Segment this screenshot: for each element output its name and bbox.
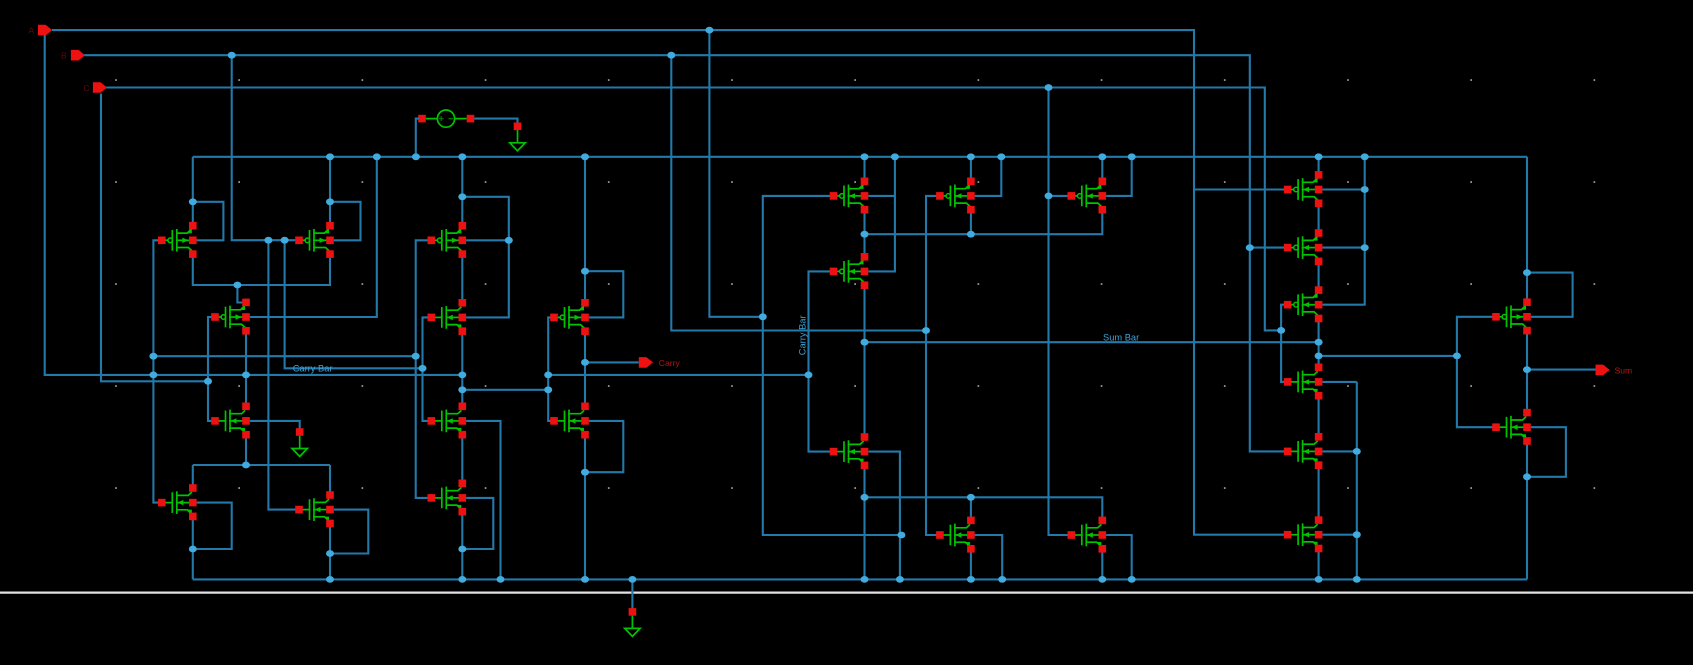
wire wire M25 bulk stub [1322,534,1356,536]
transistor M23 (NMOS) [1284,364,1323,400]
junction gnd7 [896,576,904,583]
wire wire M13 source -> M16 drain [863,211,865,257]
transistor M9 (NMOS) [428,403,467,439]
wire wire VDD rail corner -> M26 drain [1526,157,1528,302]
wire wire M11 bulk loop [585,271,623,317]
transistor M13 (PMOS) [830,178,869,214]
port input B [71,50,85,61]
junction a mid [759,313,767,320]
junction gnd3 [497,576,505,583]
wire wire M17 bulk to GND rail [869,452,900,580]
transistor M27 (NMOS) [1492,409,1531,445]
wire wire VDD -> M14 drain [970,157,972,182]
wire net M11/M12 gates column [548,317,554,421]
wire wire M19 bulk to GND rail [1106,535,1132,579]
transistor M19 (NMOS) [1068,517,1107,553]
wire wire M8 source -> M9 drain [461,331,463,406]
wire wire row y465 [193,464,330,466]
svg-text:C: C [84,83,90,93]
junction vdd8 [967,153,975,160]
wire wire M20 bulk stub [1322,188,1364,190]
wire net C -> M15 gate stub [1049,195,1072,197]
junction m12 loop [581,469,589,476]
transistor M6 (NMOS) [295,491,334,527]
junction gnd13 [1353,576,1361,583]
wire net A H1 row [153,355,415,357]
wire wire M3 source -> M4 drain [245,331,247,407]
junction h3 d2 [242,372,250,379]
wire wire GND bulk column M23-M25 [1356,382,1358,580]
transistor M14 (PMOS) [936,178,975,214]
wire VDD rail [193,156,1527,158]
junction C tap [1045,84,1053,91]
wire wire row y497 -> M19 drain [865,497,1103,520]
wire wire carry-node row y390 [462,389,548,391]
wire wire M26 bulk loop [1527,273,1573,317]
junction bulk r4 [1353,531,1361,538]
wire wire M7 bulk stub [466,239,509,241]
junction B tap2 [667,52,675,59]
junction sumbar l [861,339,869,346]
junction y234 m [967,231,975,238]
junction bulk r3 [1353,448,1361,455]
svg-text:A: A [29,26,35,36]
wire net CarryBar row to middle [548,374,808,376]
junction h3 d3 [458,372,466,379]
wire net C M3/M4 gates [208,317,215,421]
transistor M25 (NMOS) [1284,516,1323,552]
wire net A left drop + H3 row [45,35,463,375]
junction vdd5 [581,153,589,160]
wire net C top run [106,88,1281,331]
transistor M24 (NMOS) [1284,433,1323,469]
wire wire M11 source -> M12 drain (carry node) [584,331,586,407]
wire net A middle drop [709,30,762,317]
transistor M16 (PMOS) [830,253,869,289]
wire wire M14 source down [970,211,972,235]
transistor M21 (PMOS) [1284,229,1323,265]
wire wire M5 source to GND rail [192,516,194,579]
junction B tap1 [228,52,236,59]
wire wire M27 source to GND rail corner [1526,441,1528,579]
junction gnd6 [861,576,869,583]
transistor M11 (PMOS) [550,299,589,335]
junction m3 drain [233,282,241,289]
wire wire M16 source -> M17 drain (sumbar node) [863,285,865,437]
wire wire VDD -> M11 drain [584,157,586,303]
transistor M3 (PMOS) [211,299,250,335]
wire wire -> M6 drain [329,465,331,495]
wire wire M23 bulk stub [1322,381,1356,383]
transistor M26 (PMOS) [1492,298,1531,334]
junction h3r d2 [805,372,813,379]
junction m2 loop [326,198,334,205]
junction y465 [242,462,250,469]
junction vdd2 [373,153,381,160]
junction m7 loop2 [505,237,513,244]
wire wire -> M5 drain [192,465,194,488]
wire wire VDD -> M2 drain [329,157,331,226]
junction y356 r [1453,353,1461,360]
wire wire M26 source -> M27 drain (sum node) [1526,331,1528,413]
junction vdd1 [326,153,334,160]
wire wire M6 bulk loop [330,510,368,554]
wire net A -> M13 gate column [763,196,902,535]
junction gnd11 [1128,576,1136,583]
wire wire row y234 -> M15 source [865,211,1103,235]
junction gnd12 [1315,576,1323,583]
ground G1 at M4 [292,428,307,456]
wire wire M12 source to GND rail [584,435,586,580]
wire net C left drop + H4 row [101,94,208,382]
junction h4 end [204,378,212,385]
wire wire node -> M3 drain [237,285,246,303]
wire wire M4 source down [245,435,247,465]
wire net C middle drop -> M19 gate [1049,88,1072,536]
wire net A top run -> M25 gate [52,30,1288,535]
transistor M5 (NMOS) [158,484,197,520]
wire wire M21 bulk stub [1322,247,1364,249]
junction gnd10 [1098,576,1106,583]
wire wire VDD -> M20 drain [1318,157,1320,175]
junction h3 d1 [149,372,157,379]
transistor M18 (NMOS) [936,517,975,553]
wire wire M6 source to GND rail [329,523,331,579]
wire wire M22 source -> M23 drain [1318,319,1320,368]
wire net A M1/M5 gates [153,240,161,502]
svg-text:Sum Bar: Sum Bar [1103,333,1139,343]
wire wire M24 bulk stub [1322,450,1356,452]
svg-text:Carry Bar: Carry Bar [798,315,808,355]
svg-text:Carry Bar: Carry Bar [293,364,333,374]
junction c right end [1277,327,1285,334]
junction m5 loop [189,546,197,553]
svg-text:B: B [61,51,67,61]
transistor M20 (PMOS) [1284,171,1323,207]
wire wire M15 bulk to VDD [1106,157,1132,196]
wire wire M9 bulk to GND rail [466,421,500,580]
wire wire M10 bulk loop [462,498,493,549]
junction y390 l [458,386,466,393]
transistor M7 (PMOS) [428,222,467,258]
junction gnd1 [326,576,334,583]
transistor M15 (PMOS) [1068,178,1107,214]
wire wire GND rail to ground [631,579,633,609]
junction c m15g [1045,193,1053,200]
junction gnd8 [967,576,975,583]
wire wire VDD -> M13 drain [863,157,865,182]
junction sumbar r [1315,339,1323,346]
transistor M12 (NMOS) [550,403,589,439]
wire wire VDD -> M1 drain [192,157,194,226]
junction vdd12 [1315,153,1323,160]
port output Sum [1596,365,1610,376]
wire V1 minus leg [474,119,517,123]
junction h3r d1 [544,372,552,379]
wire wire M9 source -> M10 drain [461,435,463,484]
junction m10 loop [458,546,466,553]
junction gnd2 [458,576,466,583]
wire wire M21 source -> M22 drain [1318,261,1320,290]
wire wire M7 source -> M8 drain [461,254,463,303]
wire net B top run -> M24 gate [84,55,1288,451]
wire net CarryBar M8/M9 gates [423,317,432,421]
wire wire M18 bulk to GND rail [975,535,1003,579]
junction gnd9 [998,576,1006,583]
junction y497 l [861,494,869,501]
wire net B -> M14/M18 gates [926,196,940,535]
transistor M1 (PMOS) [158,222,197,258]
junction vdd13 [1361,153,1369,160]
junction b row1 [264,237,272,244]
wire wire VDD bulk column M20-M22 [1322,157,1364,305]
svg-text:Sum: Sum [1615,365,1633,375]
junction bulk r1 [1361,186,1369,193]
wire net A M7/M10 gates [416,240,432,498]
junction m7 loop [458,193,466,200]
port input A [38,25,52,36]
wire V1 plus leg to VDD rail [416,119,419,157]
junction m6 loop [326,550,334,557]
transistor M10 (NMOS) [428,480,467,516]
junction vdd9 [997,153,1005,160]
junction carry tap [581,359,589,366]
wire wire M18 source to GND rail [970,549,972,580]
wire wire M3 bulk to VDD [250,157,377,317]
wire wire VDD -> M15 drain [1101,157,1103,182]
transistor M17 (NMOS) [830,433,869,469]
wire wire M19 source to GND rail [1101,549,1103,580]
transistor M4 (NMOS) [211,403,250,439]
wire wire M1/M2 sources row y285 [193,254,330,285]
wire net CarryBar H2 row [285,240,423,368]
wire wire M5 bulk loop [193,503,232,549]
ground G3 below rail [625,608,640,636]
junction y497 m [967,494,975,501]
wire wire M25 source to GND rail [1318,549,1320,580]
wire wire SumBar row [865,341,1319,343]
wire wire M20 source -> M21 drain [1318,203,1320,233]
junction m27 loop [1523,473,1531,480]
wire wire M7 bulk loop / M8 bulk [462,197,509,318]
transistor M8 (NMOS) [428,299,467,335]
junction h2 right [419,365,427,372]
wire wire M14 bulk to VDD [975,157,1002,196]
junction vdd3 [412,153,420,160]
junction vdd11 [1128,153,1136,160]
junction y356 l [1315,353,1323,360]
wire wire M10 source to GND rail [461,512,463,580]
transistor M2 (PMOS) [295,222,334,258]
wire wire to Sum port [1527,369,1596,371]
junction gnd4 [581,576,589,583]
wire wire M26/M27 gates column [1457,317,1496,427]
junction y390 r [544,386,552,393]
wire net A -> M20 gate [1194,188,1288,190]
junction A tap [705,27,713,34]
junction h1 left [149,353,157,360]
wire wire M4 bulk to ground [250,421,300,429]
wire wire VDD bulk column M13/M16 [868,157,895,272]
svg-text:Carry: Carry [659,358,681,368]
port input C [93,82,107,93]
junction m26 loop [1523,269,1531,276]
wire wire VDD -> M7 drain [461,157,463,226]
junction b m21g [1246,244,1254,251]
separator white line [0,591,1693,593]
wire wire M17 source to GND rail [863,465,865,579]
wire net C M22/M23 gates [1281,305,1288,382]
wire wire row y356 to sum gates [1319,355,1457,357]
junction vdd6 [861,153,869,160]
junction m11 loop [581,268,589,275]
wire wire -> M18 drain [970,497,972,520]
wire wire M24 source -> M25 drain [1318,465,1320,520]
wire net B branch -> M6 gate [268,240,297,509]
junction b row2 [281,237,289,244]
junction vdd4 [458,153,466,160]
wire net CarryBar middle column M16/M17 gates [809,271,834,451]
transistor M22 (PMOS) [1284,286,1323,322]
junction m1 loop [189,198,197,205]
wire wire M27 bulk loop [1527,427,1566,477]
junction y535 end [897,532,905,539]
junction vdd7 [891,153,899,160]
wire net B middle drop [671,55,926,330]
port output Carry [639,357,653,368]
wire wire to Carry port [585,361,639,363]
wire net B -> M21 gate [1250,247,1288,249]
voltage source V1 [418,110,474,127]
junction b mid end [922,327,930,334]
junction vdd10 [1098,153,1106,160]
junction gnd5 [628,576,636,583]
junction sum tap [1523,366,1531,373]
junction y234 l [861,231,869,238]
wire wire M2 bulk loop [330,202,361,241]
wire wire M23 source -> M24 drain [1318,396,1320,437]
junction h1 right [412,353,420,360]
ground G2 at source [510,123,525,151]
wire wire M1 bulk loop [193,202,224,241]
wire GND rail [193,578,1527,580]
wire wire M13 bulk stub [868,195,895,197]
wire net B drop -> M2 gate [232,55,296,240]
junction bulk r2 [1361,244,1369,251]
wire wire M12 bulk loop [585,421,623,472]
